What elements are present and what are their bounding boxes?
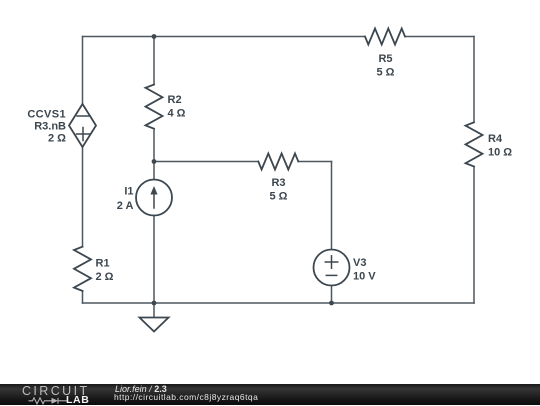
- wire ground stub: [153, 303, 155, 318]
- CCVS1 minus sign: [77, 115, 90, 117]
- footer credit line: [115, 385, 167, 394]
- wire left branch upper (corner down to CCVS1): [82, 37, 84, 105]
- I1 arrow: [153, 191, 155, 208]
- svg-text:5 Ω: 5 Ω: [377, 67, 395, 79]
- footer url line: [114, 393, 258, 402]
- CircuitLab logo CIRCUIT: [22, 385, 90, 397]
- wire middle horizontal (R3 to corner): [298, 161, 331, 163]
- svg-text:R2: R2: [168, 94, 182, 106]
- wire R2 bottom stub (R2 to middle node): [153, 129, 155, 162]
- resistor R2: [146, 85, 163, 129]
- svg-text:R3: R3: [271, 177, 285, 189]
- node at middle rail / R2-I1: [152, 159, 157, 164]
- wire bottom rail: [83, 302, 475, 304]
- wire left branch middle (CCVS1 bottom to R1 top): [82, 147, 84, 247]
- wire I1 top stub (middle node to I1): [153, 162, 155, 180]
- wire top horizontal (left corner to R5): [83, 36, 366, 38]
- resistor R3: [258, 154, 298, 170]
- svg-text:R3.nB: R3.nB: [34, 121, 66, 133]
- current source I1 (circle): [136, 180, 172, 216]
- svg-text:4 Ω: 4 Ω: [168, 108, 186, 120]
- wire V3 bottom stub (V3 to bottom rail): [331, 286, 333, 304]
- node at bottom rail / V3: [329, 301, 334, 306]
- svg-text:R1: R1: [96, 258, 110, 270]
- svg-text:2 Ω: 2 Ω: [96, 271, 114, 283]
- V3 plus sign: [325, 261, 337, 263]
- wire right branch lower (R4 bottom to bottom rail): [473, 167, 475, 304]
- resistor R5: [365, 29, 405, 45]
- CircuitLab logo squiggle and diode: [0, 384, 110, 405]
- svg-text:R4: R4: [488, 133, 503, 145]
- wire top horizontal (R5 to right corner): [405, 36, 474, 38]
- resistor R1: [74, 247, 91, 291]
- ground: [140, 318, 169, 332]
- resistor R4: [466, 122, 483, 166]
- svg-text:2 Ω: 2 Ω: [48, 133, 66, 145]
- node at top rail / R2 branch: [152, 34, 157, 39]
- controlled source CCVS1 (diamond): [69, 104, 96, 147]
- node at bottom rail / ground: [152, 301, 157, 306]
- wire I1 bottom stub (I1 to bottom rail): [153, 216, 155, 304]
- svg-text:CCVS1: CCVS1: [27, 109, 66, 121]
- svg-text:2 A: 2 A: [117, 200, 134, 212]
- wire left branch lower (R1 bottom to bottom rail): [82, 291, 84, 303]
- V3 minus sign: [326, 274, 336, 276]
- svg-text:I1: I1: [124, 186, 133, 198]
- svg-text:R5: R5: [378, 53, 392, 65]
- wire middle horizontal (node to R3): [154, 161, 258, 163]
- CircuitLab logo LAB: [66, 395, 89, 405]
- wire V3 top stub (corner down to V3): [331, 162, 333, 250]
- CCVS1 plus sign: [77, 133, 90, 135]
- svg-text:5 Ω: 5 Ω: [270, 191, 288, 203]
- svg-text:10 Ω: 10 Ω: [488, 147, 512, 159]
- svg-text:10 V: 10 V: [353, 271, 376, 283]
- wire R2 top stub (top rail to R2): [153, 37, 155, 85]
- wire right branch upper (corner down to R4): [473, 37, 475, 123]
- voltage source V3 (circle): [314, 250, 350, 286]
- footer bar: [0, 384, 540, 406]
- svg-text:V3: V3: [353, 257, 366, 269]
